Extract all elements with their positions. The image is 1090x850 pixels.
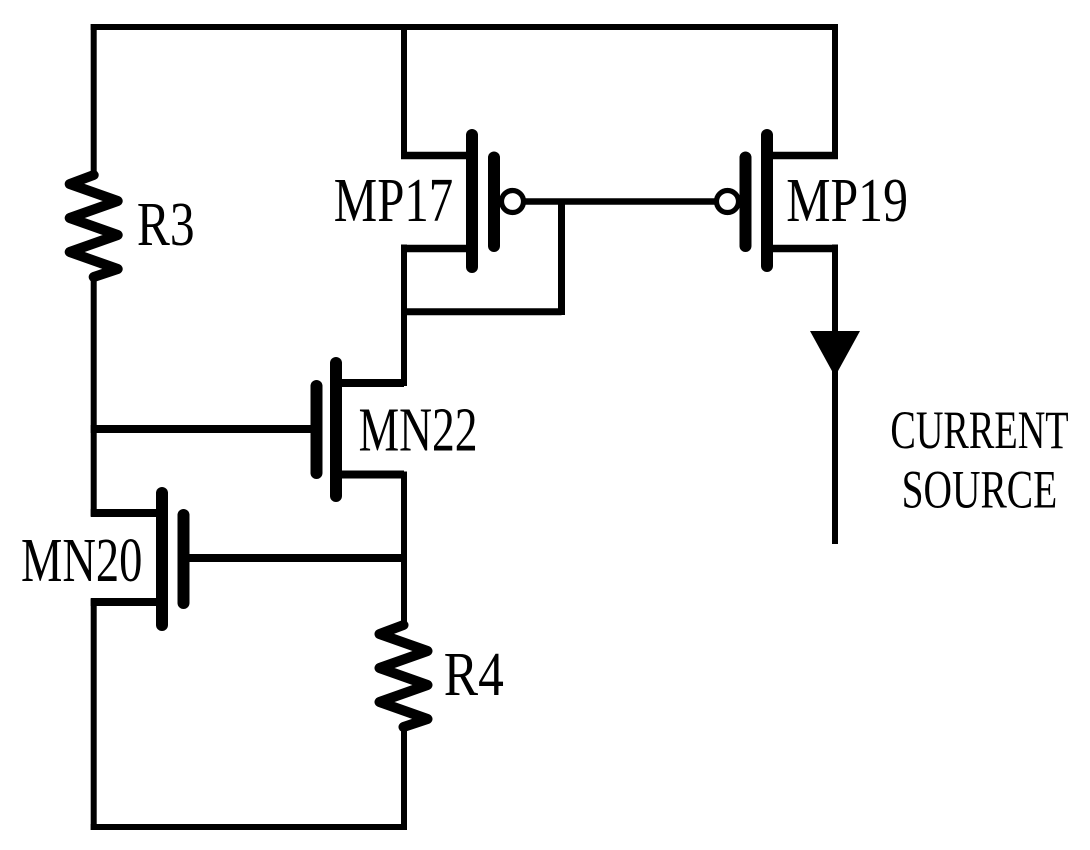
wire MP19 drain [767, 245, 838, 253]
wire gate bus MP17 to MP19 [523, 198, 717, 205]
wire bottom rail [91, 824, 407, 830]
transistor MN20 [162, 493, 184, 625]
wire left rail lower [91, 599, 97, 830]
svg-text:R4: R4 [444, 641, 504, 709]
wire MP17 gate tie horizontal [401, 308, 562, 315]
wire right rail upper [832, 24, 838, 159]
transistor MP17 [472, 135, 494, 267]
svg-text:R3: R3 [137, 191, 195, 259]
bubble MP17 gate [502, 191, 524, 213]
arrow current direction [810, 331, 860, 377]
resistor R4 [380, 625, 428, 727]
wire left rail middle [91, 274, 97, 516]
wire MN22 gate [91, 425, 314, 433]
wire MN22 source [336, 471, 404, 479]
label CURRENT SOURCE [890, 400, 1068, 520]
wire MP17 gate tie vertical [558, 199, 565, 316]
svg-text:MP19: MP19 [786, 167, 908, 235]
wire left rail upper [91, 24, 97, 174]
wire MN22 drain to MP17 drain vertical [401, 245, 407, 387]
wire right rail lower output [832, 245, 838, 545]
wire MP19 source [767, 152, 838, 160]
svg-text:MP17: MP17 [334, 167, 453, 235]
wire top rail VDD [91, 24, 838, 30]
wire MN20 drain [91, 509, 162, 517]
wire MP17 source [401, 152, 472, 160]
svg-text:SOURCE: SOURCE [902, 460, 1058, 520]
svg-text:MN22: MN22 [359, 396, 478, 464]
resistor R3 [70, 175, 118, 277]
bubble MP19 gate [717, 191, 739, 213]
svg-text:CURRENT: CURRENT [890, 400, 1068, 460]
wire top rail to MP17 source vertical [401, 24, 407, 159]
svg-text:MN20: MN20 [21, 527, 142, 595]
transistor MP19 [746, 135, 768, 266]
transistor MN22 [317, 363, 337, 496]
wire R4 bottom to bottom rail [401, 725, 407, 830]
wire MP17 drain [401, 245, 472, 253]
wire MN20 source [91, 598, 162, 606]
wire mid vertical node to R4 [401, 472, 407, 627]
wire MN22 drain [336, 379, 404, 387]
wire MN20 gate [184, 554, 407, 562]
